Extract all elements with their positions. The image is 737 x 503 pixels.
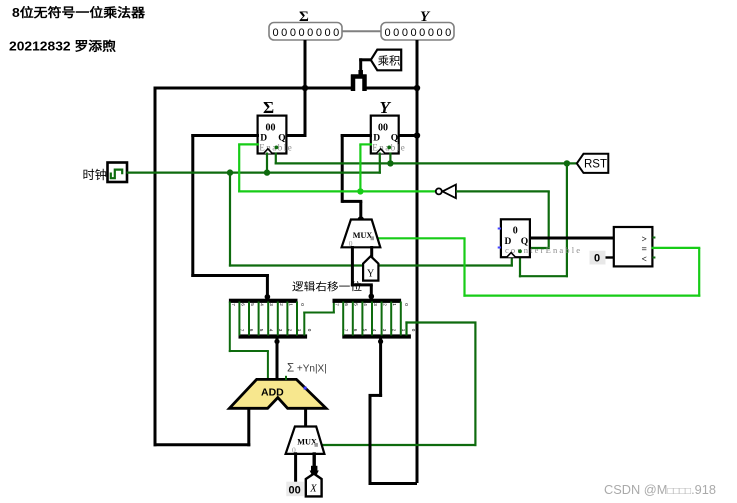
wire clock net xyxy=(127,153,513,267)
wire sum bit0 to Y bit7 link xyxy=(303,302,335,336)
wire Y register D input bus from mux xyxy=(341,134,372,221)
node splitter L top stub xyxy=(265,294,271,300)
svg-text:00: 00 xyxy=(289,485,301,497)
svg-text:2: 2 xyxy=(288,329,293,332)
node Y bus top junction xyxy=(414,85,420,91)
node mux Y output xyxy=(358,216,364,222)
svg-text:20212832 罗添煦: 20212832 罗添煦 xyxy=(9,39,117,54)
svg-text:Σ: Σ xyxy=(263,98,274,117)
svg-text:Y: Y xyxy=(380,98,392,117)
svg-text:7: 7 xyxy=(343,329,348,332)
svg-text:Y: Y xyxy=(367,269,374,280)
svg-text:3: 3 xyxy=(269,303,274,306)
svg-text:0: 0 xyxy=(411,329,416,332)
wire equals output net bright green xyxy=(375,238,701,296)
constant 0 xyxy=(590,251,615,265)
svg-text:6: 6 xyxy=(249,329,254,332)
pin X input xyxy=(306,466,322,497)
probe Y display xyxy=(381,9,454,40)
svg-text:7: 7 xyxy=(334,303,339,306)
node RST junction right xyxy=(564,160,570,166)
svg-text:5: 5 xyxy=(250,303,255,306)
splitter R pair (Y shift) xyxy=(333,299,417,339)
wire RST net xyxy=(275,153,578,278)
svg-text:=: = xyxy=(642,245,647,255)
wire counter carry net xyxy=(456,191,550,249)
svg-text:X: X xyxy=(309,484,317,495)
svg-text:逻辑右移一位: 逻辑右移一位 xyxy=(292,280,363,293)
svg-text:7: 7 xyxy=(231,303,236,306)
svg-text:0-7: 0-7 xyxy=(361,79,367,86)
svg-text:乘积: 乘积 xyxy=(378,54,401,67)
wire Y display vertical bus xyxy=(416,40,419,483)
svg-text:0: 0 xyxy=(513,225,518,236)
wire sigma feedback bus y88 xyxy=(154,87,418,447)
svg-text:00000000: 00000000 xyxy=(385,27,454,39)
wire Y current value staircase xyxy=(369,339,418,486)
wire sigma register D input bus xyxy=(191,134,269,300)
svg-text:0: 0 xyxy=(404,303,409,306)
svg-text:2: 2 xyxy=(391,329,396,332)
svg-text:00000000: 00000000 xyxy=(273,27,342,39)
wire mux lower input 00 xyxy=(294,452,297,482)
svg-text:Σ +Yn|X|: Σ +Yn|X| xyxy=(287,363,327,375)
svg-text:1: 1 xyxy=(392,303,397,306)
mux MUX-Y upper xyxy=(342,220,381,248)
wire counter Q to comparator xyxy=(529,237,615,240)
counter CTR xyxy=(498,219,581,257)
svg-text:4: 4 xyxy=(260,303,265,306)
svg-text:2: 2 xyxy=(279,303,284,306)
gate NOT U1 xyxy=(436,185,456,199)
wire enable net bright green xyxy=(238,144,436,192)
node splitter R bottom stub xyxy=(378,339,383,344)
svg-text:00: 00 xyxy=(266,123,276,134)
wire Yn select net xyxy=(318,321,477,446)
register Y xyxy=(371,98,407,154)
register SUM (Σ) xyxy=(258,98,294,154)
svg-text:RST: RST xyxy=(584,159,607,171)
svg-text:0: 0 xyxy=(307,329,312,332)
svg-text:<: < xyxy=(642,255,647,265)
tunnel 乘积 product xyxy=(359,50,401,72)
adder ADD xyxy=(229,376,326,409)
svg-text:3: 3 xyxy=(382,329,387,332)
svg-text:4: 4 xyxy=(372,329,377,332)
svg-text:1: 1 xyxy=(288,303,293,306)
wire ADD to mux lower xyxy=(304,407,307,428)
mux MUX-A lower xyxy=(286,427,325,455)
svg-text:8位无符号一位乘法器: 8位无符号一位乘法器 xyxy=(12,5,146,20)
splitter product 16-bit xyxy=(349,70,367,91)
svg-text:4: 4 xyxy=(363,303,368,306)
svg-text:MUX: MUX xyxy=(353,231,373,240)
svg-text:2: 2 xyxy=(382,303,387,306)
node RST junction Y xyxy=(387,160,393,166)
svg-text:0: 0 xyxy=(594,253,600,265)
node clock junction A xyxy=(227,169,233,175)
svg-text:3: 3 xyxy=(278,329,283,332)
probe SIGMA display xyxy=(269,9,342,40)
svg-text:4: 4 xyxy=(268,329,273,332)
svg-text:CSDN @M□□□□.918: CSDN @M□□□□.918 xyxy=(604,482,716,497)
wire mux-Y right input to tunnel xyxy=(370,246,373,258)
node splitter R top stub xyxy=(369,294,375,300)
node clock junction B xyxy=(264,169,270,175)
wire splitter L bottom to ADD xyxy=(276,339,279,381)
tunnel RST xyxy=(577,154,609,173)
svg-text:5: 5 xyxy=(259,329,264,332)
wire carry into sigma bit7 xyxy=(229,302,269,381)
svg-text:6: 6 xyxy=(353,329,358,332)
wire sigma display to register Q xyxy=(286,40,307,137)
svg-text:6: 6 xyxy=(344,303,349,306)
svg-text:0: 0 xyxy=(300,303,305,306)
svg-text:时钟: 时钟 xyxy=(83,167,108,182)
node enable junction xyxy=(357,188,363,194)
svg-text:7: 7 xyxy=(240,329,245,332)
svg-text:8-15: 8-15 xyxy=(349,79,355,89)
comparator CMP xyxy=(614,227,656,266)
svg-text:1: 1 xyxy=(401,329,406,332)
wire mux-Y left input from splitter xyxy=(351,246,373,300)
svg-text:3: 3 xyxy=(373,303,378,306)
svg-text:00: 00 xyxy=(378,123,388,134)
svg-text:MUX: MUX xyxy=(297,437,317,446)
wire gray between displays xyxy=(342,30,381,32)
svg-text:ADD: ADD xyxy=(261,386,284,398)
node sigma bus junction xyxy=(302,85,308,91)
tunnel Y small xyxy=(363,256,378,280)
node splitter L bottom stub xyxy=(274,339,279,344)
constant 00 xyxy=(286,482,304,497)
svg-text:>: > xyxy=(642,235,647,245)
splitter L pair (sigma shift) xyxy=(229,299,312,339)
wire Y register Q to bus xyxy=(397,134,419,137)
svg-text:1: 1 xyxy=(297,329,302,332)
svg-text:5: 5 xyxy=(363,329,368,332)
svg-text:5: 5 xyxy=(354,303,359,306)
svg-text:6: 6 xyxy=(240,303,245,306)
wire mux lower input X xyxy=(313,452,316,471)
node Y bus Q junction xyxy=(414,132,420,138)
clock input 时钟 xyxy=(83,163,128,183)
